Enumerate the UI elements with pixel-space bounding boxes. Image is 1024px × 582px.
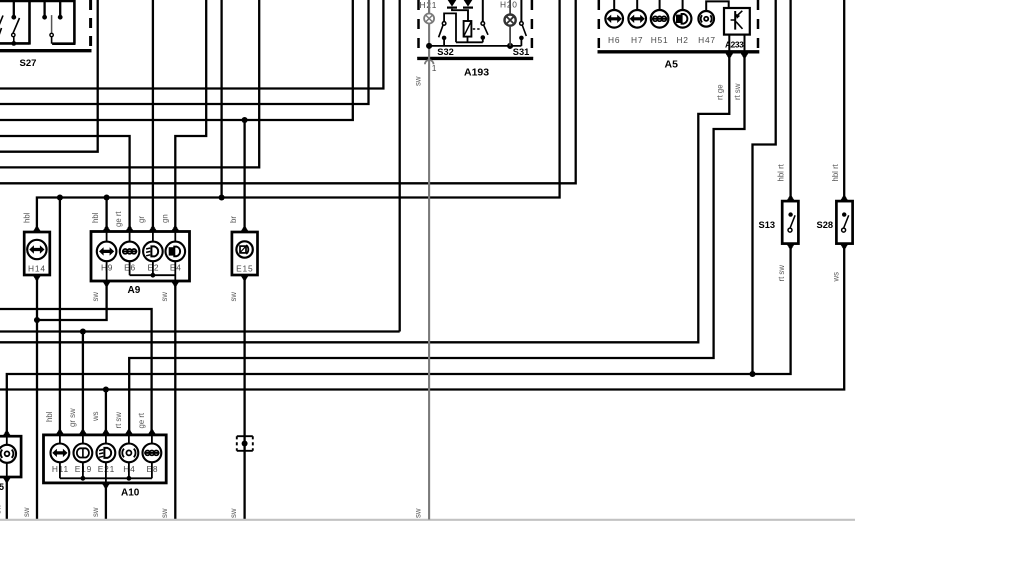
wire H9 sw link: [37, 282, 107, 321]
lamp E4: [172, 228, 179, 232]
diode D1: [448, 0, 457, 7]
pin 1 connector: [425, 60, 434, 64]
node sw/E19: [80, 328, 86, 334]
wire H5 bottom sw: [6, 481, 8, 520]
S27 partial pole at edge: [0, 16, 3, 27]
svg-text:1: 1: [432, 63, 438, 73]
S27 sub-box 2: [73, 0, 76, 44]
lamp H47: [698, 11, 714, 27]
wire S13 upper hbl rt: [789, 0, 791, 199]
wire E2 drop gr: [152, 0, 154, 229]
svg-text:sw: sw: [229, 508, 238, 518]
svg-text:H20: H20: [500, 0, 518, 10]
svg-text:sw: sw: [160, 508, 169, 518]
svg-text:H14: H14: [28, 264, 46, 274]
S27 sub-box 1: [0, 0, 76, 2]
svg-text:S32: S32: [437, 47, 454, 57]
wire H21 to pin 1 (gray): [428, 24, 430, 520]
svg-text:rt sw: rt sw: [733, 83, 742, 100]
svg-text:A193: A193: [464, 67, 489, 79]
lamp H2: [682, 0, 684, 10]
wire E19 drop gr sw: [82, 332, 84, 433]
wire hbl up: [220, 0, 222, 198]
wire bus sw/E19: [0, 330, 400, 332]
wire bus L2: [0, 0, 369, 104]
diode join wire: [452, 9, 468, 21]
lamp E19: [79, 431, 86, 435]
wire bus L7: [0, 0, 576, 183]
svg-text:sw: sw: [91, 507, 100, 517]
wire S28 upper hbl rt: [843, 0, 845, 199]
svg-text:sw: sw: [91, 292, 100, 302]
horn H5 box (cut at edge): [0, 436, 21, 477]
node ws/E21: [103, 386, 109, 392]
node A193 internal bus: [426, 43, 432, 49]
svg-text:A10: A10: [121, 488, 140, 499]
wire A193 internal bus: [429, 45, 521, 47]
wire rt sw riser to top: [753, 0, 776, 374]
svg-text:ge rt: ge rt: [137, 412, 146, 428]
svg-text:sw: sw: [0, 504, 3, 514]
svg-text:ws: ws: [831, 272, 840, 283]
svg-text:hbl: hbl: [91, 212, 100, 223]
switch S13: [782, 201, 798, 244]
A233 pin connectors: [726, 53, 733, 57]
wire E4 sw down: [174, 285, 176, 520]
svg-text:S13: S13: [759, 220, 776, 230]
svg-text:H51: H51: [651, 35, 669, 45]
S27 switch pole 1: [13, 1, 15, 16]
wire bus L6: [0, 0, 259, 167]
svg-text:br: br: [229, 216, 238, 223]
svg-text:ws: ws: [91, 411, 100, 422]
svg-text:H7: H7: [631, 35, 643, 45]
lamp E2: [149, 228, 156, 232]
wire E21 drop ws: [105, 390, 107, 433]
svg-text:hbl rt: hbl rt: [777, 163, 786, 181]
switch S31: [520, 0, 522, 22]
wire bus L1: [0, 0, 383, 89]
node sw H14/H9: [34, 317, 40, 323]
node junction br/E15: [242, 117, 248, 123]
svg-text:rt sw: rt sw: [114, 412, 123, 429]
wire bus L4b (gn to E4): [175, 0, 206, 229]
wire sw riser: [399, 0, 401, 332]
node splice: [242, 441, 248, 447]
resistor (PTC): [464, 21, 472, 37]
indicator lamp H14 box: [24, 232, 50, 275]
switch S27 box: [0, 49, 92, 52]
lamp H9: [103, 228, 110, 232]
svg-text:sw: sw: [22, 507, 31, 517]
lamp E21: [102, 431, 109, 435]
wire H9 drop hbl: [105, 198, 107, 230]
lamp cluster A10 box: [44, 435, 167, 483]
lamp H6: [613, 0, 615, 10]
lamp cluster A9 box: [91, 232, 190, 282]
svg-text:gr: gr: [137, 216, 146, 223]
svg-text:sw: sw: [413, 76, 422, 86]
wire bus rt sw H4/A233: [129, 56, 744, 432]
wire bus L4a (ge rt to E6): [0, 136, 130, 229]
wire E15 drop br: [243, 120, 245, 229]
svg-text:sw: sw: [413, 508, 422, 518]
node rt sw junction: [749, 371, 755, 377]
A10 internal bus: [59, 462, 61, 478]
lamp E6: [126, 228, 133, 232]
lamp H7: [636, 0, 638, 10]
svg-text:S27: S27: [20, 58, 37, 69]
svg-text:E15: E15: [236, 264, 253, 274]
svg-text:hbl rt: hbl rt: [831, 163, 840, 181]
wire H11 drop hbl: [59, 198, 61, 433]
svg-text:A9: A9: [128, 285, 141, 296]
svg-text:rt sw: rt sw: [777, 265, 786, 282]
license plate lamp E15 box: [232, 232, 258, 275]
lamp H11: [56, 431, 63, 435]
A9 internal bus: [129, 261, 131, 275]
lamp H4: [125, 431, 132, 435]
svg-text:ge rt: ge rt: [114, 211, 123, 227]
svg-text:gr sw: gr sw: [68, 408, 77, 427]
lamp H51: [659, 0, 661, 10]
wire bus rt sw S13: [7, 247, 791, 433]
ground rail gray line: [0, 519, 855, 521]
svg-text:hbl: hbl: [45, 411, 54, 422]
svg-text:H2: H2: [676, 35, 688, 45]
A233 pin wires: [728, 35, 730, 52]
node hbl/H11: [57, 194, 63, 200]
svg-text:A5: A5: [665, 59, 679, 71]
svg-text:5: 5: [0, 482, 4, 492]
wire bus ge rt to E8: [0, 309, 152, 432]
svg-text:H6: H6: [608, 35, 620, 45]
relay unit A193 box: [417, 0, 420, 58]
wire bus ws to S28: [0, 247, 844, 390]
switch S28: [836, 201, 852, 244]
splice connector box: [237, 435, 253, 437]
svg-text:sw: sw: [229, 292, 238, 302]
svg-text:rt ge: rt ge: [716, 84, 725, 100]
switch S32: [442, 22, 446, 26]
relay contact switch: [482, 0, 484, 22]
lamp cluster A5 box: [598, 0, 601, 51]
wire bus L3 (br to E15): [0, 0, 353, 120]
svg-text:sw: sw: [160, 292, 169, 302]
wire A10 pin sw: [105, 487, 107, 520]
brake pad sensor A233: [724, 8, 750, 35]
node hbl/H9: [104, 194, 110, 200]
S27 switch pole 2: [43, 1, 45, 16]
node hbl/up: [219, 194, 225, 200]
wire H14 sw down: [36, 279, 38, 520]
lamp E8: [148, 431, 155, 435]
wire H47 to A233 hook: [706, 1, 729, 11]
wire bus L5: [0, 0, 98, 152]
svg-text:gn: gn: [160, 214, 169, 223]
svg-text:S31: S31: [513, 47, 530, 57]
wire bus rt ge to A233: [0, 56, 729, 342]
svg-text:H47: H47: [698, 35, 716, 45]
wire E15 sw down: [243, 279, 245, 520]
diode D2: [464, 0, 473, 7]
svg-text:S28: S28: [817, 220, 834, 230]
mechanical link dashes: [473, 28, 481, 30]
wire bus hbl net: [37, 0, 560, 229]
svg-text:hbl: hbl: [22, 212, 31, 223]
svg-text:A233: A233: [725, 40, 744, 50]
